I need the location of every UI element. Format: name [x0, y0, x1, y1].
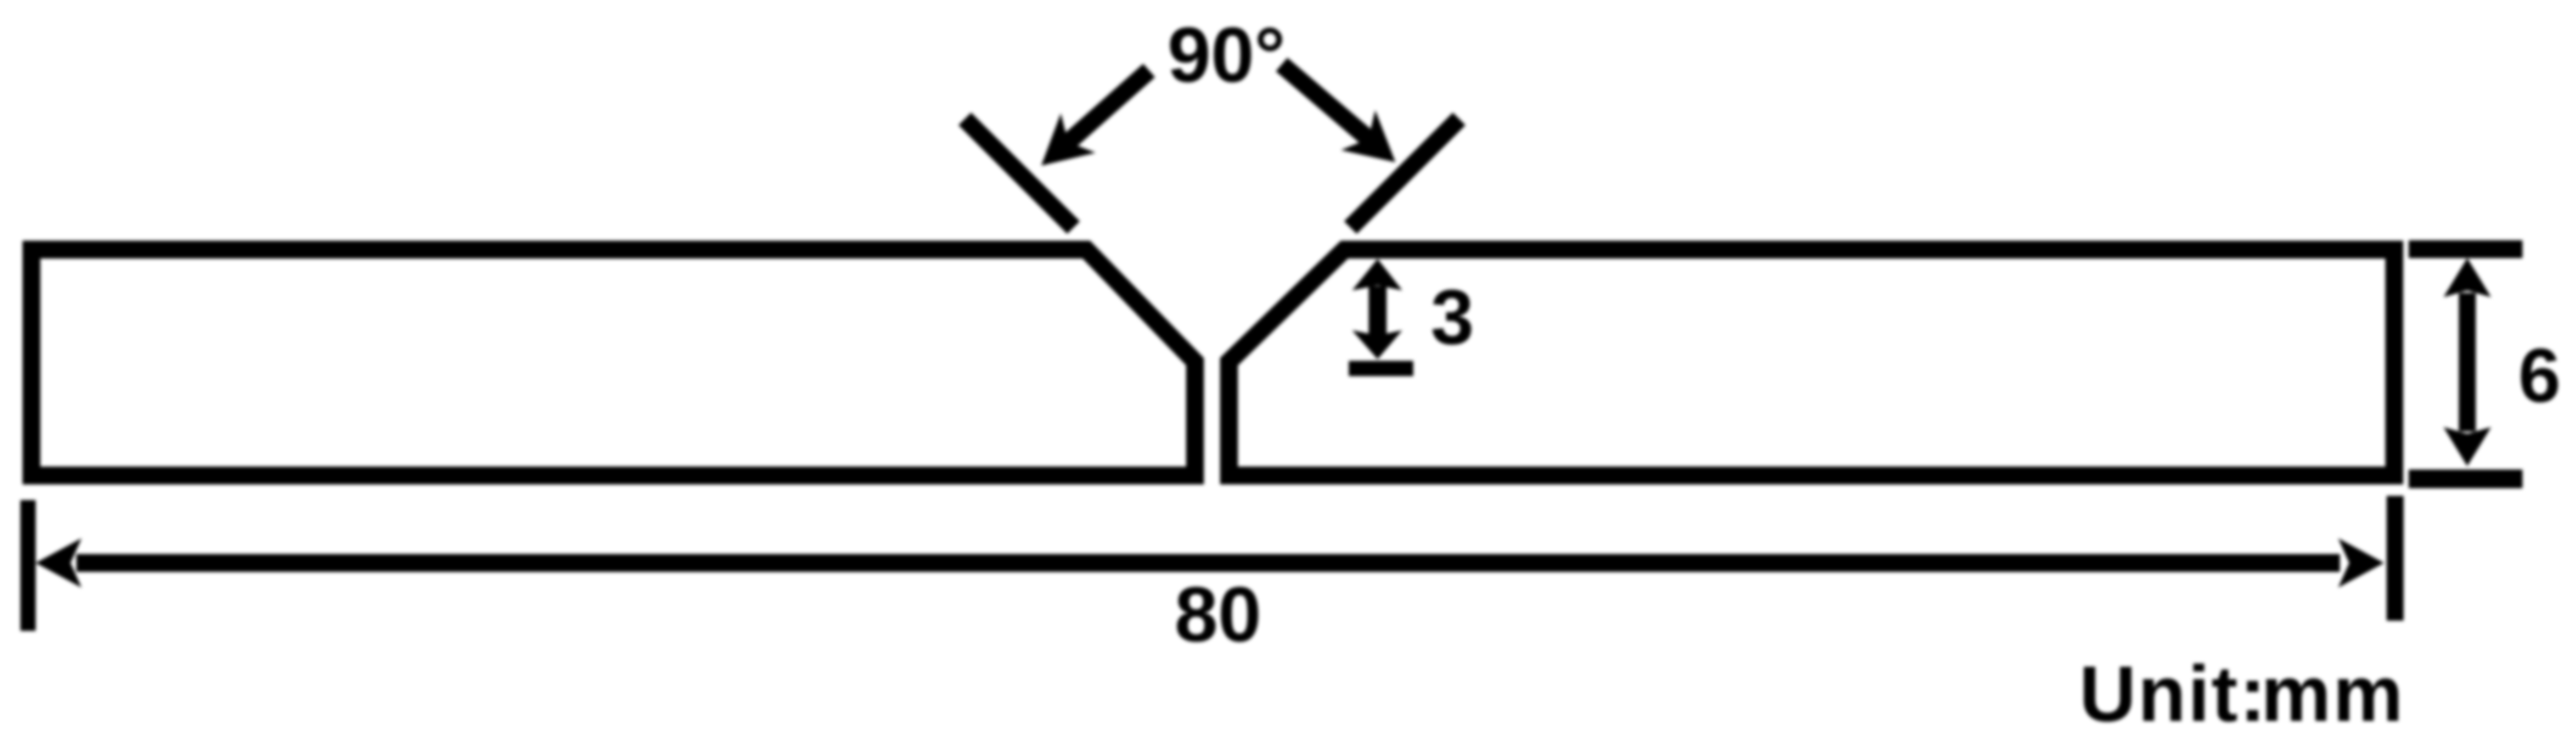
svg-text:mm: mm	[2261, 650, 2404, 737]
6mm top extension tick	[2409, 240, 2522, 258]
6mm bottom extension tick	[2409, 470, 2522, 488]
80mm left arrowhead	[36, 538, 82, 588]
6mm dimension top arrowhead	[2444, 258, 2491, 297]
6mm dimension bottom arrowhead	[2444, 427, 2491, 466]
80mm right arrowhead	[2338, 538, 2384, 588]
3mm dimension base bar	[1349, 361, 1413, 376]
80mm left extension tick	[20, 500, 36, 631]
3mm dimension bottom arrowhead	[1352, 330, 1402, 359]
svg-text:Unit:: Unit:	[2079, 650, 2268, 737]
3mm dimension top arrowhead	[1352, 259, 1402, 290]
svg-text:3: 3	[1430, 274, 1474, 361]
right groove-face extension slash	[1350, 119, 1459, 228]
svg-text:6: 6	[2518, 334, 2561, 419]
left plate	[31, 250, 1195, 475]
6mm dimension shaft	[2459, 293, 2476, 431]
left groove-face extension slash	[965, 119, 1074, 228]
80mm right extension tick	[2387, 496, 2404, 621]
right 90-degree leader arrowhead	[1341, 110, 1395, 162]
svg-text:90°: 90°	[1167, 12, 1285, 98]
3mm dimension shaft	[1369, 286, 1387, 337]
left 90-degree leader arrowhead	[1041, 113, 1096, 166]
right 90-degree leader shaft	[1282, 65, 1370, 140]
right plate	[1229, 250, 2394, 475]
svg-text:80: 80	[1175, 571, 1261, 658]
left 90-degree leader shaft	[1067, 70, 1149, 143]
80mm dimension shaft	[76, 554, 2340, 572]
